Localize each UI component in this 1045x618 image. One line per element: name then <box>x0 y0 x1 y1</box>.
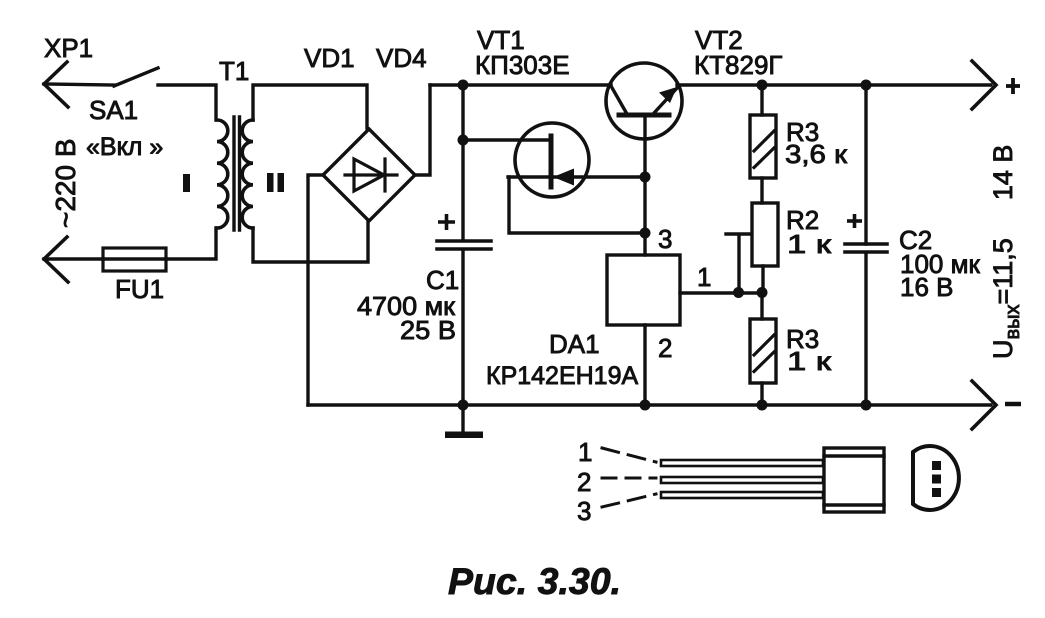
wire DA1 pin 2 down to bottom rail <box>643 325 646 405</box>
package bottom view <box>913 446 959 510</box>
output - arrow <box>972 381 996 429</box>
ground <box>445 405 483 438</box>
wire bridge minus (left vertex) down to bottom rail <box>308 175 323 405</box>
svg-text:ХР1: ХР1 <box>44 33 93 63</box>
bridge diode symbol <box>345 159 397 191</box>
fuse FU1 <box>103 248 166 271</box>
wire VT1 drain from node <box>463 138 551 141</box>
svg-text:VD4: VD4 <box>376 43 427 73</box>
switch SA1 lever <box>114 68 158 86</box>
label winding I <box>183 174 190 192</box>
wire secondary top to bridge top vertex <box>253 85 367 128</box>
package drawing lead 2 leader <box>602 477 656 480</box>
transformer T1 core <box>234 117 240 230</box>
minus sign output <box>1005 402 1021 407</box>
wire VT2 base down <box>643 115 646 233</box>
transformer T1 primary winding I <box>217 120 228 228</box>
transistor VT1 (FET) <box>508 123 645 197</box>
svg-text:SA1: SA1 <box>89 95 138 125</box>
svg-text:3,6 к: 3,6 к <box>785 139 848 169</box>
plus sign C2 <box>847 214 862 228</box>
svg-text:1: 1 <box>578 437 592 467</box>
package drawing lead 3 leader <box>602 494 656 507</box>
transistor VT2 <box>606 63 682 139</box>
svg-text:DA1: DA1 <box>549 329 600 359</box>
svg-text:КП303Е: КП303Е <box>475 50 570 80</box>
bridge rectifier VD1-VD4 diamond <box>323 129 415 221</box>
svg-text:Рис. 3.30.: Рис. 3.30. <box>448 560 621 602</box>
transformer T1 secondary winding II <box>242 120 253 228</box>
svg-text:~220 В: ~220 В <box>50 138 81 228</box>
top rail (+) <box>430 83 611 86</box>
package body <box>824 448 884 512</box>
capacitor C2 plates <box>845 244 887 252</box>
IC DA1 box <box>607 255 680 325</box>
capacitor C2 positive lead <box>864 85 867 244</box>
wire fuse to transformer primary bottom <box>166 228 216 259</box>
svg-text:FU1: FU1 <box>115 274 164 304</box>
wire lower prong to fuse <box>44 257 103 260</box>
wire VT1 source loop <box>509 177 645 233</box>
capacitor C1 plates <box>437 241 491 249</box>
junction node dots <box>458 80 872 411</box>
bottom rail (-) <box>308 403 991 406</box>
svg-text:«Вкл »: «Вкл » <box>86 133 163 161</box>
svg-text:VD1: VD1 <box>304 43 355 73</box>
resistor R2 1k <box>752 203 778 292</box>
wire bridge plus (right vertex) up to top rail <box>415 85 430 175</box>
wire from upper prong to switch <box>44 84 114 85</box>
package lead 1 <box>661 460 823 466</box>
wire R2 wiper tap <box>726 234 751 292</box>
output + arrow <box>972 61 996 109</box>
svg-text:2: 2 <box>577 467 591 497</box>
svg-text:3: 3 <box>658 224 672 254</box>
svg-text:КР142ЕН19А: КР142ЕН19А <box>486 362 638 390</box>
capacitor C1 positive lead <box>461 85 464 240</box>
wire secondary bottom to bridge bottom vertex <box>253 221 368 262</box>
connector XP1 lower prong arrow <box>44 237 68 282</box>
connector XP1 upper prong arrow <box>44 62 68 107</box>
label winding II <box>267 173 274 192</box>
svg-text:КТ829Г: КТ829Г <box>694 50 783 80</box>
svg-text:2: 2 <box>658 333 672 363</box>
plus sign output <box>1006 78 1020 94</box>
capacitor C2 negative lead <box>864 253 867 405</box>
svg-text:Т1: Т1 <box>219 56 249 86</box>
capacitor C1 negative lead <box>461 250 464 405</box>
svg-text:1 к: 1 к <box>787 346 832 376</box>
plus sign C1 <box>438 214 455 230</box>
svg-text:3: 3 <box>577 496 591 526</box>
wire DA1 pin 3 <box>643 233 646 255</box>
package drawing lead 1 leader <box>602 448 656 462</box>
wire DA1 pin 1 to divider <box>680 291 763 294</box>
resistor R3 3.6k <box>750 85 776 203</box>
wire switch to transformer primary top <box>158 85 216 120</box>
svg-text:25 В: 25 В <box>400 315 456 345</box>
svg-text:16 В: 16 В <box>900 272 954 302</box>
package lead 2 <box>661 477 823 483</box>
package lead 3 <box>661 492 823 498</box>
resistor R3 1k <box>750 292 776 405</box>
svg-text:1 к: 1 к <box>787 229 832 259</box>
svg-text:1: 1 <box>697 262 711 292</box>
